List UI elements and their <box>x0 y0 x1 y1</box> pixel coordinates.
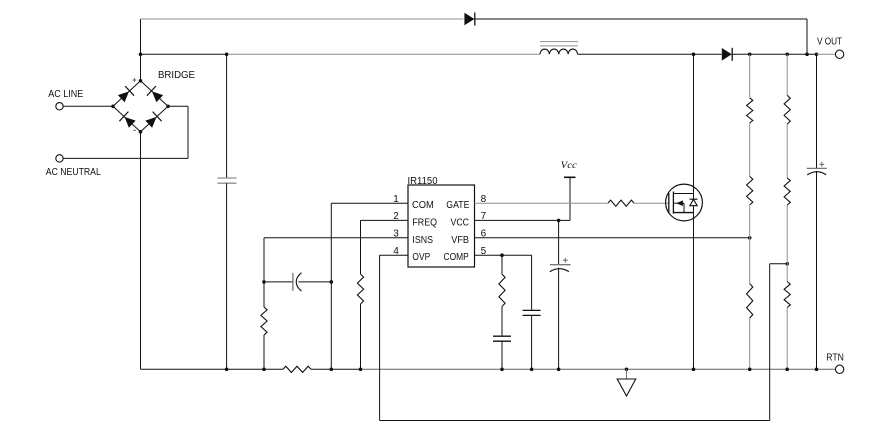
wire divider1 seg d (gray) <box>749 318 751 369</box>
node divider1 on rail <box>748 368 752 372</box>
capacitor Cout top plate <box>807 167 827 169</box>
boost diode D6 <box>722 48 732 61</box>
wire Ccomp2 to rail <box>531 315 533 369</box>
capacitor Cisns straight plate <box>292 273 294 291</box>
terminal RTN <box>835 365 843 373</box>
wire Cvcc upper lead <box>558 220 560 264</box>
svg-text:COMP: COMP <box>444 252 469 263</box>
resistor Rgate <box>608 200 634 206</box>
resistor Risns <box>261 307 267 335</box>
capacitor Cvcc top plate <box>550 264 571 266</box>
wire AC NEUTRAL to bridge right vertex <box>64 157 189 159</box>
bridge - mark <box>133 129 136 131</box>
svg-text:COM: COM <box>412 200 434 211</box>
wire bridge- down to rail <box>140 132 142 369</box>
wire MOSFET drain/source vertical <box>693 54 695 369</box>
svg-text:V OUT: V OUT <box>817 36 842 47</box>
bypass diode D5 <box>464 13 474 26</box>
node Risns on rail <box>262 368 266 372</box>
node divider2 top <box>785 53 789 57</box>
capacitor C1 plates <box>218 177 237 179</box>
resistor Rdiv1b <box>747 176 753 205</box>
wire rail left section <box>141 368 284 370</box>
wire divider2 seg c (gray) <box>786 205 788 282</box>
wire rail mid section <box>311 368 361 370</box>
node MOSFET source on rail <box>692 368 696 372</box>
node bridge left vertex <box>111 105 115 109</box>
node VCC cap tap <box>557 219 561 223</box>
node bypass joins boost line <box>805 53 809 57</box>
wire divider2 seg d (gray) <box>786 308 788 370</box>
wire divider2 seg b (gray) <box>786 124 788 178</box>
wire rail right section (gray) <box>361 368 817 370</box>
wire FREQ pin to left <box>361 219 409 221</box>
node divider2 on rail <box>785 368 789 372</box>
wire OVP pin to left <box>380 254 408 256</box>
wire COMP branch down <box>501 255 503 274</box>
node bridge top vertex <box>139 79 143 83</box>
svg-text:RTN: RTN <box>826 352 844 363</box>
IC U1 IR1150 box <box>408 185 475 267</box>
wire COMP pin to right <box>475 254 532 256</box>
bridge diode D4 (bottom to right) <box>145 117 156 128</box>
wire Cout lower lead <box>816 171 818 369</box>
MOSFET Q1 source arrow wire <box>673 202 684 204</box>
node COM at ISNS cap <box>330 280 334 284</box>
svg-text:VFB: VFB <box>451 235 469 246</box>
capacitor Cvcc curved plate <box>550 269 569 272</box>
capacitor Cisns curved plate <box>296 273 301 291</box>
MOSFET Q1 body-diode triangle <box>690 200 697 206</box>
wire FREQ down to resistor <box>360 220 362 274</box>
resistor Rdiv1c <box>747 284 753 318</box>
inductor L1 core lines <box>540 41 578 43</box>
wire VFB pin to divider <box>475 237 750 239</box>
wire boost line: bridge+ to filter cap <box>141 53 227 55</box>
node Cout on rail <box>815 368 819 372</box>
node Rfreq on rail <box>359 368 363 372</box>
wire Rcomp to cap <box>501 306 503 336</box>
svg-text:VCC: VCC <box>451 217 470 228</box>
resistor Rcomp <box>499 274 505 306</box>
bridge diode D1 (left to top) <box>118 91 129 102</box>
wire OVP bottom run <box>380 420 770 422</box>
svg-text:GATE: GATE <box>446 200 469 211</box>
wire boost line: filter cap to inductor (gray) <box>227 53 540 55</box>
wire divider1 seg c (gray) <box>749 205 751 284</box>
ground symbol <box>617 379 636 396</box>
capacitor Ccomp2 plates <box>523 309 541 311</box>
wire COM pin to left <box>331 202 408 204</box>
node MOSFET drain tap <box>692 53 696 57</box>
MOSFET Q1 drain stub <box>673 193 693 195</box>
terminal AC LINE <box>56 103 63 110</box>
wire COM net down to rail <box>330 203 332 369</box>
node COM on rail <box>330 368 334 372</box>
wire Risns to rail <box>263 335 265 369</box>
svg-text:AC NEUTRAL: AC NEUTRAL <box>46 167 101 178</box>
node Ccomp2 on rail <box>530 368 534 372</box>
node VFB on divider1 <box>748 236 752 240</box>
node COMP branch <box>500 253 504 257</box>
wire VCC pin to right <box>475 219 571 221</box>
svg-text:FREQ: FREQ <box>412 217 437 228</box>
node bridge right vertex <box>166 105 170 109</box>
wire Rfreq to rail <box>360 304 362 369</box>
Vcc supply bar <box>564 176 576 178</box>
wire bypass line right <box>476 18 808 20</box>
MOSFET Q1 body-diode bar <box>690 198 698 200</box>
capacitor Cvcc + mark <box>563 259 568 261</box>
wire Rgate to MOSFET gate (gray) <box>634 202 669 204</box>
terminal V OUT <box>835 50 843 58</box>
node output cap top <box>815 53 819 57</box>
ground stub <box>626 369 628 379</box>
bridge diode D2 (right to top) <box>152 91 163 102</box>
node filter cap on rail <box>225 368 229 372</box>
wire rail to RTN <box>817 368 836 370</box>
wire divider1 seg b (gray) <box>749 123 751 176</box>
resistor Rdiv1a <box>747 98 753 123</box>
wire divider1 seg a (gray) <box>749 54 751 98</box>
MOSFET Q1 body circle <box>666 184 703 221</box>
wire ISNS cap left lead <box>264 281 293 283</box>
wire divider2 seg a (gray) <box>786 54 788 95</box>
node boost line at bridge+ <box>139 53 143 57</box>
wire filter cap lower lead <box>226 183 228 369</box>
wire bypass drop to output node <box>806 19 808 54</box>
wire output lead (gray) <box>817 53 836 55</box>
node ground on rail <box>625 368 629 372</box>
bridge branch wire left-top <box>113 81 141 107</box>
capacitor Cout curved plate <box>807 172 826 175</box>
wire Cvcc lower lead <box>558 268 560 370</box>
svg-text:IR1150: IR1150 <box>408 176 438 187</box>
resistor Rdiv2b <box>784 178 790 205</box>
node OVP on divider2 <box>785 262 789 266</box>
node filter cap tap <box>225 53 229 57</box>
wire boost line: diode to output <box>732 53 817 55</box>
svg-text:Vcc: Vcc <box>561 160 578 171</box>
svg-text:BRIDGE: BRIDGE <box>158 70 195 81</box>
svg-text:OVP: OVP <box>412 252 430 263</box>
bridge branch wire top-right <box>141 81 169 107</box>
wire ISNS pin to left <box>264 237 408 239</box>
wire bypass line left (gray) <box>141 18 464 20</box>
capacitor Ccomp1 plates <box>493 335 511 337</box>
wire GATE pin to resistor (gray) <box>475 202 609 204</box>
node Cvcc on rail <box>557 368 561 372</box>
wire COMP right branch down <box>531 255 533 310</box>
resistor Rsense (in rail) <box>283 366 311 372</box>
wire OVP up right side <box>769 264 771 421</box>
capacitor Cout + mark <box>819 163 824 165</box>
wire boost line: inductor to boost diode <box>578 53 722 55</box>
bridge branch wire bottom-right <box>141 106 169 132</box>
MOSFET Q1 source stub <box>673 212 693 214</box>
wire Ccomp1 to rail <box>501 341 503 369</box>
bridge branch wire left-bottom <box>113 106 141 132</box>
MOSFET Q1 gate bar <box>668 193 670 213</box>
bridge + mark <box>133 79 137 81</box>
svg-text:ISNS: ISNS <box>412 235 433 246</box>
wire OVP tap to divider2 <box>770 263 788 265</box>
resistor Rdiv2a <box>784 95 790 124</box>
MOSFET Q1 source arrow head <box>676 200 683 206</box>
MOSFET Q1 channel bar <box>672 192 674 214</box>
wire bridge+ up to top lines <box>140 19 142 81</box>
wire OVP down <box>379 255 381 420</box>
wire filter cap upper lead <box>226 54 228 178</box>
node divider1 top <box>748 53 752 57</box>
wire Cout upper lead <box>816 54 818 168</box>
inductor L1 <box>540 49 578 54</box>
wire ISNS down <box>263 238 265 307</box>
resistor Rdiv2c <box>784 282 790 308</box>
svg-text:AC LINE: AC LINE <box>48 89 83 100</box>
wire Vcc stem <box>569 177 571 220</box>
resistor Rfreq <box>357 274 363 304</box>
wire AC LINE to bridge <box>64 105 114 107</box>
wire ISNS cap right lead <box>298 281 331 283</box>
bridge diode D3 (bottom to left) <box>125 117 136 128</box>
node ISNS at cap <box>262 280 266 284</box>
node Ccomp1 on rail <box>500 368 504 372</box>
node bridge bottom vertex <box>139 130 143 134</box>
terminal AC NEUTRAL <box>56 155 63 162</box>
